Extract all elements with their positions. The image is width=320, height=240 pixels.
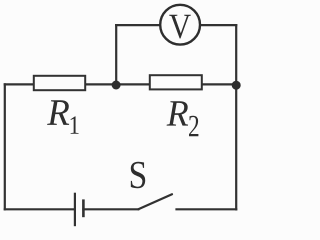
wire: middle horizontal (R1-R2 row): [5, 83, 236, 85]
label R2: [167, 101, 188, 125]
battery cell short plate: [82, 199, 85, 217]
resistor R2 body: [150, 75, 202, 89]
wire: bottom-left horizontal to battery: [5, 208, 75, 210]
switch S blade (open): [138, 194, 172, 209]
wire: battery to switch pivot: [83, 208, 138, 210]
label S (switch): [131, 162, 145, 189]
label R1: [47, 100, 69, 125]
node B junction dot (right): [232, 81, 241, 90]
label R1 subscript 1: [71, 116, 79, 133]
label R2 subscript 2: [189, 116, 198, 137]
node A junction dot (left): [112, 81, 121, 90]
voltmeter V symbol: [169, 15, 191, 39]
wire: top-right horizontal (voltmeter branch right): [200, 24, 236, 26]
wire: left voltmeter vertical drop to node A: [115, 25, 117, 85]
battery cell long plate: [74, 193, 76, 227]
wire: switch right contact to bottom-right corner: [177, 208, 237, 210]
wire: right outer vertical: [235, 25, 237, 209]
wire: top-left horizontal (voltmeter branch left): [116, 24, 160, 26]
resistor R1 body: [34, 76, 85, 90]
wire: left outer vertical: [4, 84, 6, 209]
voltmeter U1 circle: [160, 5, 200, 45]
